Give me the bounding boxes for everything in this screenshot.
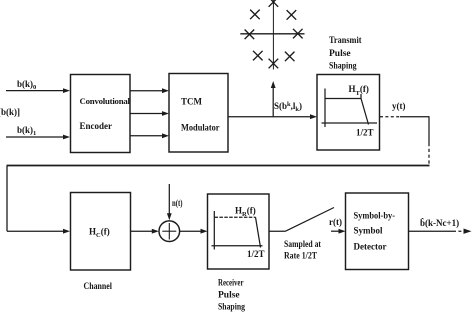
wire left vertical drop (6, 166, 8, 232)
block U4 Channel H_C(f) (71, 193, 131, 271)
receiver filter plot x-axis (212, 245, 263, 247)
block U1 Convolutional Encoder (71, 75, 131, 153)
svg-text:Symbol: Symbol (354, 226, 384, 236)
svg-text:Receiver: Receiver (218, 279, 244, 289)
svg-text:S(bk,lk): S(bk,lk) (274, 101, 302, 113)
constellation point X mid-right (293, 29, 303, 39)
wire y(t) corner down solid (428, 116, 430, 143)
svg-text:y(t): y(t) (392, 101, 406, 111)
svg-text:Channel: Channel (84, 282, 113, 292)
svg-text:Symbol-by-: Symbol-by- (354, 211, 396, 221)
transmit filter plot x-axis (322, 122, 378, 124)
block U2 TCM Modulator (169, 74, 228, 153)
wire channel to adder (131, 230, 154, 232)
svg-text:Detector: Detector (354, 242, 387, 252)
wire detector output (409, 230, 454, 232)
transmit filter response curve (325, 99, 368, 125)
svg-text:n(t): n(t) (172, 198, 183, 208)
svg-text:b(k)1: b(k)1 (17, 125, 36, 137)
svg-text:Convolutional: Convolutional (80, 96, 131, 106)
svg-text:HR(f): HR(f) (235, 206, 256, 218)
wire long feed line across page (7, 165, 430, 167)
svg-text:TCM: TCM (181, 97, 203, 107)
sampler SW1 switch arm (286, 208, 335, 232)
constellation point X top-center (269, 0, 279, 7)
constellation point X bottom-center (269, 59, 279, 69)
svg-text:Modulator: Modulator (181, 123, 220, 133)
svg-text:Encoder: Encoder (80, 121, 113, 131)
receiver filter plot y-axis (213, 211, 215, 250)
wire encoder to modulator line 3 (130, 135, 163, 137)
block U5 Receiver Pulse Shaping filter (208, 194, 270, 269)
wire encoder to modulator line 1 (130, 90, 163, 92)
svg-text:HT(f): HT(f) (349, 84, 369, 97)
constellation vertical axis (272, 0, 274, 70)
wire input b(k)0 into encoder (6, 90, 64, 92)
svg-text:Shaping: Shaping (329, 62, 357, 72)
svg-text:Sampled at: Sampled at (284, 240, 322, 250)
svg-text:[b(k)]: [b(k)] (0, 107, 20, 117)
wire adder to receiver filter (180, 230, 202, 232)
receiver filter response curve (215, 216, 256, 218)
block U6 Symbol-by-Symbol Detector (346, 193, 409, 270)
svg-text:HC(f): HC(f) (89, 227, 110, 239)
wire into channel (7, 230, 64, 232)
wire encoder to modulator line 2 (130, 113, 163, 115)
block U3 Transmit Pulse Shaping filter (317, 75, 380, 151)
wire sampler to detector (331, 230, 340, 232)
constellation point X top-right (287, 10, 297, 20)
constellation point X bottom-right (285, 52, 295, 62)
svg-text:Transmit: Transmit (329, 36, 362, 46)
svg-text:1/2T: 1/2T (247, 249, 265, 259)
svg-text:Pulse: Pulse (329, 49, 351, 59)
svg-text:1/2T: 1/2T (356, 128, 374, 138)
wire y(t) corner down dash (428, 143, 430, 166)
svg-text:Rate 1/2T: Rate 1/2T (284, 252, 318, 262)
transmit filter plot y-axis (324, 89, 326, 128)
wire branch up to constellation (272, 86, 274, 117)
svg-text:r(t): r(t) (329, 217, 342, 227)
constellation point X bottom-left (253, 51, 263, 61)
svg-text:Shaping: Shaping (218, 303, 245, 313)
wire n(t) into adder (168, 184, 170, 215)
wire modulator to transmit filter (228, 116, 311, 118)
wire y(t) dash-dot from transmit filter (380, 116, 400, 118)
constellation point X top-left (250, 10, 260, 20)
wire receiver filter to sampler (269, 230, 286, 232)
constellation point X mid-left (245, 30, 255, 40)
constellation horizontal axis (240, 33, 304, 35)
svg-text:Pulse: Pulse (218, 291, 240, 301)
svg-text:b(k)0: b(k)0 (17, 79, 36, 91)
summer S1 adder circle (159, 221, 180, 242)
wire y(t) solid to corner (400, 116, 429, 118)
svg-text:b̂(k-Nc+1): b̂(k-Nc+1) (420, 217, 459, 228)
wire input b(k)1 into encoder (6, 136, 64, 138)
